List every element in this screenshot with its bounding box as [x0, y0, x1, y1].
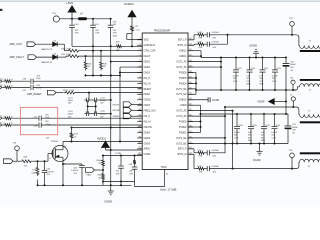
resistor R63 47R	[188, 148, 194, 150]
svg-text:0805: 0805	[261, 140, 265, 142]
wire PVDD risers	[188, 72, 196, 74]
wire	[227, 35, 229, 44]
svg-text:C95: C95	[290, 61, 293, 63]
svg-text:0805: 0805	[246, 84, 250, 86]
svg-text:PVDD5: PVDD5	[179, 78, 187, 80]
capacitor C96 680uF	[287, 114, 289, 126]
svg-text:OUT2_P2: OUT2_P2	[176, 111, 187, 113]
svg-text:GVDD: GVDD	[144, 154, 151, 156]
pin 6 GND2	[137, 66, 142, 68]
capacitor C123	[274, 57, 276, 59]
svg-text:AVDD1: AVDD1	[97, 136, 107, 140]
pin 36 PVDD4	[188, 82, 193, 84]
svg-text:+22uF: +22uF	[45, 124, 51, 126]
svg-text:CMUTE: CMUTE	[144, 127, 153, 129]
pin 37 PVDD5	[188, 77, 193, 79]
svg-text:0805: 0805	[248, 140, 252, 142]
svg-text:IN2_M: IN2_M	[144, 121, 151, 123]
pin 10 RESET	[137, 88, 142, 90]
svg-text:OUT2_P1: OUT2_P1	[176, 116, 187, 118]
capacitor C48	[132, 166, 138, 168]
resistor R64 47R	[188, 153, 194, 155]
pin 32 GND9	[188, 104, 193, 106]
wire GND rail	[201, 57, 286, 59]
pin 20 GND6	[137, 142, 142, 144]
svg-text:0.01uF: 0.01uF	[272, 75, 279, 77]
svg-text:680uF: 680uF	[292, 127, 298, 129]
wire	[134, 182, 136, 186]
capacitor C149 0.033uF	[206, 168, 207, 170]
pin 4 FAULT	[137, 55, 142, 57]
pin 23 BST2_M	[188, 153, 193, 155]
svg-text:D4: D4	[54, 53, 56, 55]
svg-text:0.01uF: 0.01uF	[234, 132, 241, 134]
wire	[16, 151, 18, 162]
svg-text:DGND: DGND	[212, 100, 219, 102]
svg-text:1 1 R84: 1 1 R84	[115, 153, 122, 155]
op-amp U1 TPA3220DDWR body	[142, 33, 188, 170]
pin 16 IN2_M	[137, 121, 142, 123]
svg-text:GND1: GND1	[144, 62, 151, 64]
capacitor C112	[263, 113, 265, 115]
svg-text:OUT2_M2: OUT2_M2	[176, 143, 187, 145]
pin 42 GND12	[188, 50, 193, 52]
node gate connector	[4, 159, 14, 164]
svg-text:C113: C113	[252, 125, 256, 127]
svg-text:IN1_M: IN1_M	[144, 83, 151, 85]
pin 21 AVDD	[137, 148, 142, 150]
wire drain to GND5	[62, 142, 64, 146]
inductor T3 winding	[300, 152, 320, 154]
svg-text:IN1_P: IN1_P	[144, 78, 151, 80]
pin 31 OUT2_P2	[188, 110, 193, 112]
svg-text:COG: COG	[233, 81, 238, 83]
pin 1 VDD	[137, 39, 142, 41]
wire	[124, 45, 143, 47]
wire	[56, 92, 63, 94]
inductor T1 winding B	[300, 79, 320, 81]
pin 33 GND10	[188, 99, 193, 101]
pin 44 BST1_P	[188, 39, 193, 41]
svg-text:0.047uF: 0.047uF	[47, 171, 55, 173]
svg-text:X7R: X7R	[75, 33, 79, 35]
capacitor C55	[44, 161, 46, 170]
pin 3 OTW_CLIP	[137, 50, 142, 52]
pin 15 IN2_P	[137, 115, 142, 117]
capacitor C66	[63, 163, 82, 165]
wire GND9 riser	[188, 104, 201, 106]
svg-text:IN2_P: IN2_P	[144, 116, 151, 118]
svg-text:PVDD2: PVDD2	[179, 127, 187, 129]
pin 14 FREQ_ADJ	[137, 110, 142, 112]
pin 25 OUT2_M2	[188, 142, 193, 144]
node DGND tag	[188, 99, 208, 101]
svg-text:BST2_M: BST2_M	[178, 154, 187, 156]
pin 39 OUT1_P1	[188, 66, 193, 68]
capacitor C150 0.033uF	[206, 152, 207, 154]
pin 13 OSCP	[137, 104, 142, 106]
wire	[188, 50, 201, 52]
svg-text:VDDP: VDDP	[257, 100, 264, 104]
svg-text:DGND: DGND	[250, 44, 258, 48]
svg-text:0402: 0402	[113, 35, 117, 37]
capacitor C175 1000pF	[94, 111, 96, 116]
wire OUT2_M rows	[188, 137, 225, 139]
pin 22 GVDD	[137, 153, 142, 155]
svg-text:X7R: X7R	[248, 137, 252, 139]
wire	[95, 169, 104, 171]
svg-text:AMP_CLIP: AMP_CLIP	[10, 43, 23, 46]
wire GND rail 2	[188, 143, 288, 145]
svg-text:COG: COG	[234, 137, 239, 139]
wire	[87, 18, 111, 20]
resistor R87 10R	[134, 156, 136, 159]
svg-text:TPA3220DDWR: TPA3220DDWR	[154, 29, 171, 32]
capacitor C111	[262, 57, 264, 59]
svg-text:FREQ_ADJ: FREQ_ADJ	[144, 110, 156, 113]
wire OUT2 risers	[188, 110, 233, 112]
resistor R85 NC	[102, 170, 104, 172]
capacitor C170 100pF	[84, 113, 86, 115]
wire GVDD row	[102, 155, 142, 157]
wire PVDD rows	[188, 121, 201, 123]
wire PVDD rail	[196, 89, 296, 91]
svg-text:0805: 0805	[259, 84, 263, 86]
wire	[59, 18, 78, 20]
svg-text:C121: C121	[237, 68, 242, 70]
svg-text:PVDD6: PVDD6	[179, 72, 187, 74]
svg-text:OSCM: OSCM	[144, 100, 151, 102]
capacitor C120	[236, 113, 238, 115]
svg-text:OSCM1: OSCM1	[112, 110, 120, 112]
svg-text:DGND: DGND	[253, 158, 261, 162]
wire	[285, 90, 287, 114]
pin 9 IN1_M	[137, 82, 142, 84]
pin 38 PVDD6	[188, 72, 193, 74]
wire	[132, 109, 143, 111]
pin 34 OUT1_M2	[188, 93, 193, 95]
svg-text:104: 104	[113, 24, 116, 26]
capacitor C39	[110, 18, 112, 20]
pin 19 GND5	[137, 137, 142, 139]
svg-text:2N7002: 2N7002	[51, 141, 59, 143]
svg-text:C123: C123	[276, 68, 281, 70]
capacitor C121	[235, 57, 237, 59]
wire	[103, 181, 135, 183]
pin 29 PVDD3	[188, 121, 193, 123]
svg-text:100K: 100K	[31, 172, 36, 174]
diode D3 BAS316-TP	[53, 42, 58, 47]
pin 11 HEAD	[137, 93, 142, 95]
svg-text:GND12: GND12	[179, 51, 187, 53]
pin 26 OUT2_M1	[188, 137, 193, 139]
wire	[88, 93, 90, 100]
svg-text:BST1_P: BST1_P	[178, 40, 187, 42]
wire	[120, 72, 142, 74]
svg-text:GND4: GND4	[144, 132, 151, 134]
resistor R33 NC	[85, 55, 87, 57]
pin 35 OUT1_M1	[188, 88, 193, 90]
svg-text:COG: COG	[271, 137, 276, 139]
pin 7 GND3	[137, 72, 142, 74]
wire OUT2 to filter	[225, 106, 296, 108]
svg-text:X7R: X7R	[113, 33, 117, 35]
svg-text:GND11: GND11	[179, 56, 187, 58]
resistor R100 0R	[102, 156, 104, 159]
svg-text:OUT1_P2: OUT1_P2	[176, 62, 187, 64]
wire	[135, 177, 165, 186]
svg-text:0.033uF: 0.033uF	[212, 166, 220, 168]
svg-text:OUT1_M2: OUT1_M2	[176, 94, 187, 96]
pin 17 CMUTE	[137, 126, 142, 128]
pin 27 PVDD1	[188, 131, 193, 133]
svg-text:D3: D3	[54, 40, 56, 42]
svg-text:+5V0: +5V0	[66, 1, 73, 5]
svg-text:OUT1_P1: OUT1_P1	[176, 67, 187, 69]
svg-text:+22uF: +22uF	[36, 88, 42, 90]
svg-text:PVDD1: PVDD1	[179, 132, 187, 134]
svg-text:Gain: 17.5dB: Gain: 17.5dB	[160, 188, 176, 192]
inductor T1 winding A	[292, 35, 300, 46]
svg-text:47R: 47R	[199, 156, 203, 158]
wire	[119, 67, 121, 141]
pin 24 BST2_P	[188, 148, 193, 150]
svg-text:GND3: GND3	[144, 72, 151, 74]
svg-text:OUT1_M1: OUT1_M1	[176, 89, 187, 91]
svg-text:0.047uF: 0.047uF	[71, 170, 79, 172]
svg-text:X7R: X7R	[116, 173, 120, 175]
top border line	[0, 0, 320, 2]
svg-text:0.01uF: 0.01uF	[233, 75, 240, 77]
svg-text:R85: R85	[98, 174, 101, 176]
pin 2 GAIN/SLV1	[137, 44, 142, 46]
resistor R76 100K	[37, 161, 39, 166]
capacitor C95 680uF	[285, 57, 287, 59]
ground DGND	[259, 144, 261, 152]
svg-text:HEAD: HEAD	[144, 93, 151, 96]
svg-text:47R: 47R	[199, 38, 203, 40]
resistor R62 47R	[188, 44, 194, 46]
wire	[88, 105, 96, 107]
resistor R2	[131, 25, 134, 33]
core	[300, 121, 320, 123]
svg-text:OSCP: OSCP	[144, 105, 151, 107]
ground DGND	[110, 185, 112, 191]
wire	[110, 46, 112, 185]
svg-text:AMP_FAULT: AMP_FAULT	[10, 56, 25, 59]
diode D4 BAS316-TP	[53, 55, 58, 60]
core	[300, 50, 320, 52]
svg-text:GND5: GND5	[144, 138, 151, 140]
capacitor C171 1000pF	[94, 98, 96, 103]
node edge connector	[0, 9, 2, 11]
capacitor C24	[92, 18, 94, 20]
pin 5 GND1	[137, 61, 142, 63]
svg-text:X7R: X7R	[261, 137, 265, 139]
svg-text:C122: C122	[276, 125, 281, 127]
capacitor C113	[250, 113, 252, 115]
svg-text:FRE02: FRE02	[113, 116, 120, 118]
svg-text:C112: C112	[265, 125, 269, 127]
svg-text:OTW_CLIP: OTW_CLIP	[144, 51, 156, 53]
wire	[37, 56, 53, 58]
svg-text:0.033uF: 0.033uF	[212, 32, 220, 34]
resistor R61 47R	[188, 39, 194, 41]
pin 8 IN1_P	[137, 77, 142, 79]
svg-text:0.033uF: 0.033uF	[212, 150, 220, 152]
svg-text:BST1_M: BST1_M	[178, 45, 187, 47]
wire	[131, 33, 133, 47]
pin 18 GND4	[137, 131, 142, 133]
svg-text:X7R: X7R	[246, 81, 250, 83]
wire	[57, 56, 66, 58]
svg-text:BAS316-TP: BAS316-TP	[42, 61, 53, 64]
wire	[126, 34, 128, 40]
svg-text:47R: 47R	[199, 47, 203, 49]
capacitor C40	[71, 19, 73, 25]
svg-text:VDD: VDD	[144, 40, 149, 42]
capacitor C172 100pF	[84, 99, 86, 101]
svg-text:C110: C110	[251, 68, 255, 70]
svg-text:OUT2_M1: OUT2_M1	[176, 138, 187, 140]
wire	[92, 46, 94, 75]
resistor R74 1k	[72, 127, 143, 129]
svg-text:X7R: X7R	[95, 33, 99, 35]
capacitor C122	[274, 113, 276, 115]
svg-text:COG: COG	[272, 81, 277, 83]
svg-text:C96: C96	[292, 124, 295, 126]
svg-text:BAS316-TP: BAS316-TP	[42, 48, 53, 51]
svg-text:BST2_P: BST2_P	[178, 149, 187, 151]
capacitor C148 0.033uF	[206, 34, 207, 36]
svg-text:1k: 1k	[74, 136, 76, 138]
node FB02	[86, 168, 95, 173]
wire OUT1 risers	[188, 61, 221, 63]
svg-text:GND10: GND10	[179, 100, 187, 102]
capacitor C110	[249, 57, 251, 59]
svg-text:680uF: 680uF	[290, 64, 296, 66]
wire	[87, 100, 89, 114]
svg-text:GND2: GND2	[144, 67, 151, 69]
wire	[132, 115, 143, 117]
svg-text:PVDD4: PVDD4	[179, 83, 187, 85]
svg-text:DGND: DGND	[105, 199, 113, 203]
svg-text:RESET: RESET	[144, 89, 152, 91]
svg-text:R100: R100	[96, 160, 101, 162]
svg-text:TPAD: TPAD	[161, 166, 167, 169]
capacitor C147 0.033uF	[206, 43, 207, 45]
svg-text:GND9: GND9	[180, 105, 187, 107]
pin 30 OUT2_P1	[188, 115, 193, 117]
svg-text:FAULT: FAULT	[144, 55, 152, 58]
wire source	[62, 161, 64, 185]
svg-text:X7R: X7R	[129, 173, 133, 175]
wire ground rail	[38, 184, 132, 186]
svg-text:0.01uF: 0.01uF	[271, 132, 278, 134]
resistor R36 NC	[100, 50, 102, 52]
svg-text:OSCP1: OSCP1	[112, 104, 120, 106]
pin 12 OSCM	[137, 99, 142, 101]
svg-text:PVDD3: PVDD3	[179, 121, 187, 123]
svg-text:AVDD1: AVDD1	[124, 2, 134, 6]
svg-text:0.033uF: 0.033uF	[212, 41, 220, 43]
pin 28 PVDD2	[188, 126, 193, 128]
svg-text:X7R: X7R	[259, 81, 263, 83]
wire	[36, 43, 53, 45]
svg-text:C111: C111	[264, 68, 268, 70]
wire	[57, 43, 64, 45]
wire gate	[47, 154, 49, 162]
svg-text:47R: 47R	[199, 171, 203, 173]
wire	[106, 149, 143, 151]
svg-text:AMP_RESET: AMP_RESET	[27, 93, 42, 96]
pin 40 OUT1_P2	[188, 61, 193, 63]
pin 41 GND11	[188, 55, 193, 57]
highlight box	[21, 107, 58, 134]
svg-text:AVDD: AVDD	[144, 148, 151, 151]
svg-text:GND6: GND6	[144, 143, 151, 145]
wire	[86, 75, 121, 77]
svg-text:GAIN/SLV1: GAIN/SLV1	[144, 44, 156, 47]
pin 43 BST1_M	[188, 44, 193, 46]
svg-text:C120: C120	[238, 125, 243, 127]
svg-text:10k: 10k	[24, 165, 27, 167]
svg-text:C48: C48	[129, 164, 132, 166]
capacitor C61	[120, 156, 122, 166]
wire	[72, 45, 115, 47]
wire PVDD rail 2	[201, 113, 289, 115]
wire	[132, 103, 143, 105]
